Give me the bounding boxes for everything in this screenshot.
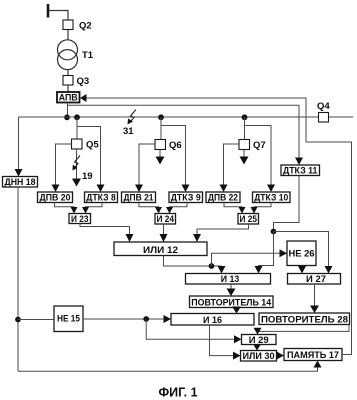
- block OR ILI 30: [241, 351, 277, 363]
- svg-text:ДНН 18: ДНН 18: [5, 177, 36, 188]
- breaker Q4: [317, 101, 330, 122]
- svg-text:ПОВТОРИТЕЛЬ 28: ПОВТОРИТЕЛЬ 28: [261, 314, 348, 325]
- wire DPV21 to I24: [139, 203, 162, 214]
- block I 25: [238, 214, 259, 226]
- svg-text:T1: T1: [82, 50, 94, 61]
- wire bus to Q6: [160, 117, 162, 140]
- bus wire right of Q4: [329, 116, 354, 118]
- wire Q5 to DPV20 arrow: [52, 144, 72, 192]
- wire Q2 to T1: [67, 30, 69, 41]
- svg-text:АПВ: АПВ: [59, 93, 78, 104]
- fault bolt 31: [123, 110, 136, 138]
- wire DTKZ11 down to node: [274, 176, 300, 232]
- wire DPV20 to I23: [55, 203, 78, 214]
- wire T1 to Q3: [67, 70, 69, 76]
- wire node to NE15: [18, 319, 54, 321]
- block I 16: [171, 314, 254, 326]
- wire DTKZ8 to I23: [82, 203, 102, 214]
- block MEMORY PAMYAT 17: [284, 349, 342, 362]
- wire DPV22 to I25: [224, 203, 246, 214]
- svg-text:ДТКЗ 11: ДТКЗ 11: [283, 166, 318, 177]
- wire Q5 node to DTKZ8 arrow: [77, 127, 105, 193]
- transformer T1: [58, 40, 94, 70]
- node NE15 input: [15, 317, 21, 323]
- wire Q6 to DPV21 arrow: [135, 144, 155, 192]
- block NOT NE 26: [287, 241, 316, 266]
- block DNN 18: [3, 177, 38, 189]
- svg-text:И 27: И 27: [306, 274, 326, 285]
- wire DTKZ10 to I25: [251, 203, 272, 214]
- wire bus to Q7: [244, 117, 246, 140]
- wire I23 to OR12: [80, 224, 134, 243]
- block OR ILI 12: [114, 242, 207, 256]
- wire source to Q2: [49, 11, 68, 21]
- wire I27 to REPEATER28: [310, 284, 319, 313]
- wire I13 to REPEATER14: [227, 284, 236, 296]
- block DTKZ 10: [253, 192, 291, 204]
- block I 24: [155, 214, 176, 226]
- wire REPEATER28 to I29: [254, 325, 350, 335]
- wire APV to bus: [67, 103, 69, 118]
- wire I29 to OR30: [253, 344, 261, 351]
- svg-text:ПАМЯТЬ 17: ПАМЯТЬ 17: [287, 350, 339, 361]
- svg-text:И 23: И 23: [71, 214, 89, 225]
- fault bolt 19: [73, 156, 93, 183]
- wire bus to DNN18 with arrow: [15, 117, 23, 177]
- figure caption: [158, 386, 197, 400]
- svg-text:Q2: Q2: [79, 21, 92, 32]
- block I 13: [186, 274, 271, 286]
- Q7 trip arrow: [240, 150, 249, 165]
- block I 27: [288, 274, 341, 286]
- node bus junction 3: [158, 114, 164, 120]
- block I 23: [69, 214, 91, 225]
- bus wire: [19, 116, 319, 118]
- svg-text:ДТКЗ 9: ДТКЗ 9: [171, 193, 201, 204]
- node NE15 output branch: [143, 316, 149, 322]
- wire I24 to OR12: [160, 224, 168, 242]
- block REPEATER POVTORITEL 14: [190, 296, 274, 308]
- source terminal bar: [47, 4, 50, 18]
- block NOT NE 15: [54, 306, 83, 332]
- svg-text:ДПВ 21: ДПВ 21: [124, 193, 155, 204]
- block DPV 22: [206, 192, 240, 204]
- svg-text:ИЛИ 30: ИЛИ 30: [243, 351, 275, 362]
- wire reset line to MEMORY17: [18, 361, 322, 372]
- node bus junction 2: [74, 114, 80, 120]
- block DPV 20: [38, 192, 73, 204]
- wire I16 to OR30: [210, 325, 241, 360]
- node DTKZ11 branch: [271, 229, 277, 235]
- wire Q7 node to DTKZ10 arrow: [245, 126, 276, 193]
- svg-text:ИЛИ 12: ИЛИ 12: [143, 245, 178, 256]
- wire MEMORY17 feedback to APV: [80, 94, 352, 355]
- wire Q6 node to DTKZ9 arrow: [161, 126, 190, 193]
- svg-text:ПОВТОРИТЕЛЬ 14: ПОВТОРИТЕЛЬ 14: [191, 297, 272, 308]
- breaker Q6: [155, 140, 182, 152]
- block DTKZ 8: [85, 192, 118, 204]
- wire I25 to OR12: [193, 224, 249, 242]
- wire branch to I29: [146, 319, 241, 343]
- svg-text:И 25: И 25: [239, 214, 257, 225]
- wire bus to Q5: [76, 117, 78, 139]
- wire REPEATER14 to I16: [232, 307, 241, 314]
- block DPV 21: [122, 192, 156, 204]
- svg-text:Q7: Q7: [253, 140, 266, 151]
- wire DNN18 down through NE15 node: [17, 187, 19, 371]
- svg-text:Q4: Q4: [317, 101, 330, 112]
- svg-text:ДТКЗ 8: ДТКЗ 8: [86, 193, 116, 204]
- svg-text:31: 31: [123, 126, 134, 137]
- svg-text:НЕ 26: НЕ 26: [289, 249, 315, 260]
- svg-text:ДПВ 22: ДПВ 22: [208, 193, 238, 204]
- wire TKZ11 pickup from APV drop: [68, 105, 304, 165]
- breaker Q7: [239, 140, 266, 152]
- wire NE26 to I27: [298, 266, 306, 274]
- node OR12 output branch: [209, 263, 215, 269]
- wire OR30 to MEMORY17: [277, 352, 285, 360]
- block REPEATER POVTORITEL 28: [259, 313, 350, 325]
- svg-text:НЕ 15: НЕ 15: [57, 314, 81, 325]
- svg-text:Q6: Q6: [169, 140, 182, 151]
- svg-text:ФИГ. 1: ФИГ. 1: [158, 386, 197, 400]
- svg-text:ДТКЗ 10: ДТКЗ 10: [254, 193, 288, 204]
- svg-text:ДПВ 20: ДПВ 20: [40, 193, 71, 204]
- Q5 trip wire with arrow: [72, 149, 81, 187]
- block DTKZ 9: [169, 192, 203, 204]
- breaker Q3: [63, 76, 89, 88]
- Q6 trip arrow: [156, 150, 165, 165]
- block APV (auto-reclose): [57, 92, 80, 104]
- svg-text:И 24: И 24: [156, 214, 174, 225]
- svg-text:И 13: И 13: [221, 274, 240, 285]
- breaker Q5: [72, 139, 100, 151]
- wire DTKZ9 to I24: [166, 203, 187, 214]
- wire node to I13: [255, 232, 274, 274]
- wire Q3 to APV: [67, 85, 69, 92]
- svg-text:И 16: И 16: [203, 315, 222, 326]
- wire branch to NOT26: [212, 249, 288, 266]
- breaker Q2: [63, 20, 92, 32]
- wire Q7 to DPV22 arrow: [220, 144, 240, 192]
- wire node to I27: [274, 232, 333, 274]
- wire NE15 to I16: [83, 315, 171, 323]
- svg-text:19: 19: [82, 171, 93, 182]
- block DTKZ 11: [281, 165, 320, 177]
- svg-text:Q5: Q5: [86, 140, 99, 151]
- node bus junction 1: [64, 114, 70, 120]
- svg-text:Q3: Q3: [77, 76, 90, 87]
- wire OR12 to I13: [164, 256, 226, 274]
- node bus junction 4: [242, 114, 248, 120]
- block I 29: [242, 335, 277, 346]
